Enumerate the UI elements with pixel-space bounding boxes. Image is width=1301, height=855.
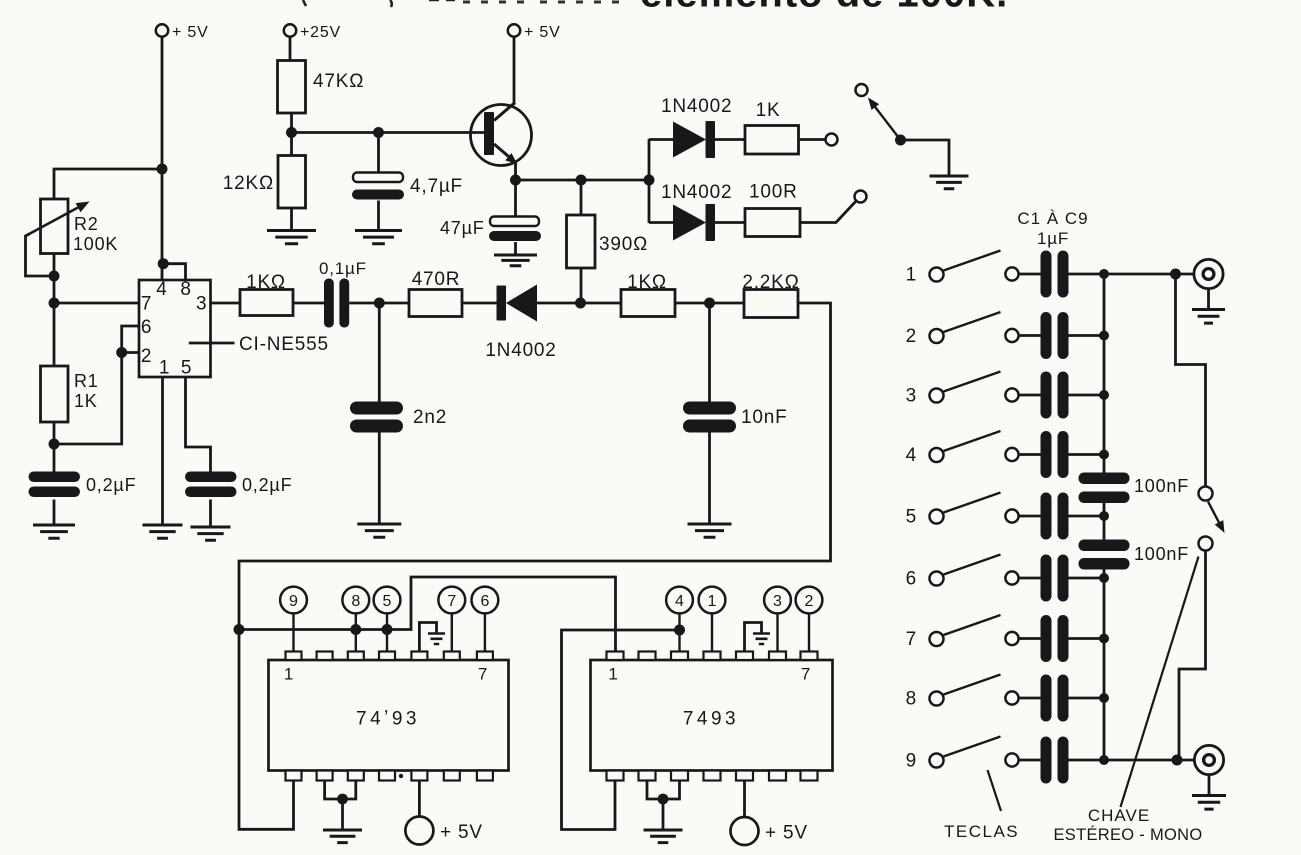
node bus row 6 <box>1099 573 1109 583</box>
capacitor C1 1uF <box>1041 251 1052 298</box>
svg-text:elemento de 100K.: elemento de 100K. <box>640 0 1008 16</box>
svg-text:0,2µF: 0,2µF <box>242 475 292 495</box>
wire pin 5 to capacitor <box>186 377 211 472</box>
power terminal +5V (left) <box>156 24 168 36</box>
wire tecla 7 to capacitor C7 <box>1018 637 1041 640</box>
svg-text:8: 8 <box>180 279 191 300</box>
resistor R1 1K <box>41 366 69 422</box>
svg-text:1N4002: 1N4002 <box>661 96 732 117</box>
svg-text:9: 9 <box>906 751 917 772</box>
svg-text:4: 4 <box>675 593 684 610</box>
wire row1 to output jack 1 <box>1104 273 1194 276</box>
wire to coupling cap <box>293 302 324 305</box>
stereo switch blade with arrow <box>1208 502 1220 524</box>
svg-text:47KΩ: 47KΩ <box>313 71 364 92</box>
node 2n2 junction <box>374 298 385 309</box>
wire row9 to output jack 2 <box>1104 759 1195 762</box>
wire C7 to bus <box>1069 637 1105 640</box>
node base bias junction <box>286 127 297 138</box>
ground under 47uF <box>494 255 537 266</box>
wire to upper diode <box>649 138 673 141</box>
ground under 2n2 <box>357 524 401 537</box>
wire tecla 8 to capacitor C8 <box>1018 697 1041 700</box>
svg-text:+25V: +25V <box>300 24 341 41</box>
svg-text:+ 5V: + 5V <box>440 822 483 843</box>
node label 7 over IC1 <box>438 587 465 614</box>
node bus row 8 <box>1099 693 1109 703</box>
capacitor C3 1uF <box>1041 372 1052 419</box>
wire pin 4 stub <box>161 264 164 280</box>
svg-text:100nF: 100nF <box>1134 544 1189 564</box>
svg-text:0,2µF: 0,2µF <box>86 475 136 495</box>
wire C4 to bus <box>1069 453 1105 456</box>
wire to 1K <box>581 302 622 305</box>
capacitor C4 1uF <box>1041 431 1052 478</box>
wire C6 to bus <box>1069 577 1105 580</box>
ground IC2 bottom <box>644 830 683 843</box>
capacitor 0,1uF <box>324 279 334 328</box>
node bus row 5 <box>1099 511 1109 521</box>
wire C3 to bus <box>1069 394 1105 397</box>
svg-text:7: 7 <box>447 593 456 610</box>
node R2 wiper junction <box>49 271 60 282</box>
terminal after 100R <box>855 191 867 203</box>
svg-text:1: 1 <box>708 593 717 610</box>
node label 9 over IC1 <box>280 587 307 614</box>
wire stereo switch lower to output jack 2 <box>1179 551 1206 761</box>
node emitter junction <box>510 175 521 186</box>
wire 390R to main row <box>580 268 583 303</box>
wire bus mid <box>1103 503 1106 540</box>
output jack J1 <box>1194 259 1223 288</box>
wire node to NE555 pin 7 <box>54 302 139 305</box>
svg-text:C1 À C9: C1 À C9 <box>1017 209 1088 228</box>
node label 3 over IC2 <box>764 587 791 614</box>
ground under 0,2uF left <box>33 525 75 538</box>
node 4,7uF junction <box>373 127 384 138</box>
node IC2 pin3 junction <box>674 625 685 636</box>
node label 2 over IC2 <box>796 587 823 614</box>
ground IC1 bottom <box>323 830 362 843</box>
svg-text:CI-NE555: CI-NE555 <box>239 334 329 355</box>
wire to stereo switch upper contact <box>1176 274 1206 487</box>
wire 10nF to ground <box>708 433 711 525</box>
svg-text:3: 3 <box>773 593 782 610</box>
svg-text:390Ω: 390Ω <box>599 234 648 255</box>
wire +5V rail down to IC1 pins 4/8 <box>161 37 164 263</box>
ground under 10nF <box>688 524 732 537</box>
svg-text:1N4002: 1N4002 <box>661 182 732 203</box>
wire IC2 bottom pins 2-3 join <box>647 781 680 800</box>
svg-text:5: 5 <box>181 358 192 379</box>
wire feedback to IC1 pins <box>239 577 616 652</box>
capacitor C8 1uF <box>1041 675 1052 722</box>
IC2 pin notches top <box>607 652 624 661</box>
ground NE555 pin 1 <box>143 525 183 538</box>
node stereo switch lower junction <box>1172 755 1183 766</box>
wire switch to ground <box>901 140 950 176</box>
power terminal +5V IC2 <box>731 817 759 845</box>
svg-text:4,7µF: 4,7µF <box>410 176 463 197</box>
wire emitter rail <box>516 179 650 182</box>
ground IC2 pin 5 (top) <box>745 623 762 652</box>
power terminal +5V (transistor) <box>508 24 520 36</box>
wire IC2 feedback loop <box>562 630 680 830</box>
resistor 100R <box>745 209 800 237</box>
svg-text:0,1µF: 0,1µF <box>319 259 367 278</box>
svg-text:6: 6 <box>480 593 489 610</box>
wire tecla 4 to capacitor C4 <box>1018 453 1041 456</box>
wire cap to node <box>349 302 409 305</box>
IC U2 74'93 body <box>269 660 509 771</box>
node pin2 wire junction <box>116 347 127 358</box>
capacitor 100nF (bus lower) <box>1079 540 1130 552</box>
svg-text:2,2KΩ: 2,2KΩ <box>742 272 799 293</box>
IC U3 7493 body <box>591 660 833 771</box>
node IC1 ground junction <box>337 794 348 805</box>
wire to 390R <box>580 180 583 215</box>
node 10nF junction <box>704 298 715 309</box>
node switch pivot <box>895 135 906 146</box>
node junction at +5V rail / R2 branch <box>157 164 168 175</box>
node IC1 pin3 junction <box>350 624 361 635</box>
wire +25V to 47K <box>289 37 292 61</box>
svg-text:ESTÉREO - MONO: ESTÉREO - MONO <box>1053 825 1202 844</box>
svg-text:6: 6 <box>141 317 152 338</box>
wire node to NE555 pins 2/6 branch <box>54 353 122 445</box>
wire node 5 to IC1 pin <box>386 614 388 652</box>
node bus row 4 <box>1099 450 1109 460</box>
svg-text:3: 3 <box>196 294 207 315</box>
IC2 pin notches bottom <box>607 771 624 781</box>
node label 8 over IC1 <box>342 587 369 614</box>
svg-text:4: 4 <box>156 279 167 300</box>
wire diode to 1K <box>715 138 745 141</box>
output jack J2 <box>1194 745 1223 774</box>
resistor 390-ohm <box>567 215 596 268</box>
node bus row 1 <box>1099 269 1109 279</box>
svg-text:TECLAS: TECLAS <box>944 822 1019 841</box>
svg-text:7: 7 <box>478 665 488 684</box>
power terminal +5V IC1 <box>405 817 433 845</box>
wire C5 to bus <box>1069 515 1105 518</box>
wire node to 4,7uF <box>377 133 380 174</box>
svg-text:5: 5 <box>383 593 392 610</box>
wire tecla 5 to capacitor C5 <box>1018 515 1041 518</box>
svg-text:4: 4 <box>906 445 917 466</box>
capacitor 0,2uF (pin 5) <box>185 472 237 483</box>
resistor 12K-ohm <box>278 156 306 209</box>
wire node 4 to IC2 pin <box>678 614 680 652</box>
node 390R bottom junction <box>575 298 586 309</box>
ground under 12K <box>267 231 316 244</box>
svg-text:+ 5V: + 5V <box>524 24 561 41</box>
wire C8 to bus <box>1069 697 1105 700</box>
node label 6 over IC1 <box>472 587 499 614</box>
node bus row 3 <box>1099 390 1109 400</box>
svg-text:1KΩ: 1KΩ <box>246 272 286 293</box>
capacitor 47uF electrolytic <box>490 217 539 227</box>
wire jack 1 to ground <box>1207 289 1210 309</box>
wire base node to transistor <box>292 131 487 134</box>
wire to 10nF node <box>675 302 744 305</box>
node stereo switch upper junction <box>1170 269 1181 280</box>
diode 1N4002 (lower, to 100R) <box>673 205 706 241</box>
wire node 6 to IC1 pin <box>484 614 486 652</box>
wire +5V to collector <box>513 37 516 105</box>
wire branch to diodes <box>648 139 651 223</box>
svg-text:2: 2 <box>141 346 152 367</box>
wire NE555 pin 2 <box>122 351 139 354</box>
callout line CI-NE555 <box>189 342 235 345</box>
svg-text:2: 2 <box>805 593 814 610</box>
wire 470R to diode <box>462 302 497 305</box>
svg-text:R1: R1 <box>74 371 99 391</box>
capacitor C6 1uF <box>1041 555 1052 602</box>
svg-text:7: 7 <box>801 665 811 684</box>
wire 1K to terminal <box>799 138 826 141</box>
wire 2n2 to ground <box>378 433 381 525</box>
svg-text:1µF: 1µF <box>1037 229 1069 248</box>
wire node 7 to IC1 pin <box>451 614 453 652</box>
wire 100R to terminal <box>800 202 856 223</box>
node bus row 2 <box>1099 331 1109 341</box>
wire 47K to 12K / base node <box>290 113 293 156</box>
wire node 2 to IC2 pin <box>808 614 810 652</box>
potentiometer R2 100K <box>41 199 69 254</box>
wire cap to ground <box>53 500 56 526</box>
wire emitter to node <box>514 163 517 180</box>
wire to lower diode <box>649 221 673 224</box>
wire 2,2K output to counters <box>239 303 831 829</box>
resistor 470R <box>409 290 462 317</box>
capacitor 2n2 <box>350 402 403 415</box>
wire pin 3 out <box>211 302 241 305</box>
callout line TECLAS <box>988 770 1002 811</box>
capacitor 0,2uF (left) <box>29 472 81 483</box>
wire from +5V rail to R2 top <box>54 169 162 199</box>
node bus row 9 <box>1099 755 1109 765</box>
wire to IC1 ground <box>341 799 344 830</box>
resistor 2,2K-ohm <box>744 290 798 318</box>
svg-text:1KΩ: 1KΩ <box>627 272 667 293</box>
svg-text:8: 8 <box>351 593 360 610</box>
wire mixing bus upper <box>1103 274 1106 473</box>
node 390R top junction <box>576 175 587 186</box>
wire IC2 pin 5 bottom to +5V <box>743 781 746 818</box>
svg-text:5: 5 <box>906 507 917 528</box>
svg-text:470R: 470R <box>412 269 461 290</box>
wire node to 2n2 <box>378 303 381 402</box>
svg-text:CHAVE: CHAVE <box>1088 806 1150 825</box>
ground jack 2 <box>1192 796 1226 810</box>
svg-text:1: 1 <box>159 358 170 379</box>
wire to IC2 ground <box>662 799 665 830</box>
wire mixing bus lower <box>1103 570 1106 761</box>
node bus row 7 <box>1099 634 1109 644</box>
node diode branch junction <box>644 175 655 186</box>
op-amp timer U1 CI-NE555 box <box>139 280 211 377</box>
wire tecla 3 to capacitor C3 <box>1018 394 1041 397</box>
svg-text:7493: 7493 <box>683 709 739 730</box>
wire C2 to bus <box>1069 334 1105 337</box>
resistor 1K (output) <box>745 126 799 155</box>
svg-text:2: 2 <box>906 326 917 347</box>
node label 4 over IC2 <box>666 587 693 614</box>
wire R1 bottom to capacitor <box>53 422 56 472</box>
svg-text:+ 5V: + 5V <box>765 823 808 844</box>
wire jack 2 to ground <box>1208 775 1211 795</box>
capacitor C7 1uF <box>1041 615 1052 662</box>
node IC2 ground junction <box>658 794 669 805</box>
transistor Q1 <box>471 105 532 166</box>
svg-text:7: 7 <box>141 294 152 315</box>
capacitor C5 1uF <box>1041 493 1052 540</box>
capacitor 100nF (bus upper) <box>1079 473 1130 485</box>
ground under 0,2uF pin5 <box>191 527 231 540</box>
svg-text:+ 5V: + 5V <box>172 24 209 41</box>
svg-text:1: 1 <box>608 665 618 684</box>
wire node 1 to IC2 pin <box>711 614 713 652</box>
wire IC1 bottom pins 2-3 join <box>325 781 356 800</box>
svg-text:12KΩ: 12KΩ <box>223 173 274 194</box>
svg-text:2n2: 2n2 <box>413 407 447 428</box>
IC1 pin notches bottom <box>286 771 302 781</box>
wire diode to 100R <box>715 221 745 224</box>
svg-text:10nF: 10nF <box>741 407 788 428</box>
svg-text:1: 1 <box>284 665 294 684</box>
switch terminal (top) <box>856 84 868 96</box>
node pins 4/8 supply junction <box>158 258 169 269</box>
resistor 1K-ohm (second) <box>621 290 675 317</box>
svg-text:100nF: 100nF <box>1134 476 1189 496</box>
power terminal +25V <box>284 24 296 36</box>
wire 47uF to ground <box>514 242 517 255</box>
IC1 pin notches top <box>286 652 302 661</box>
ground at mute switch <box>930 176 969 189</box>
switch blade with arrow <box>874 106 901 141</box>
node IC1 pin4 junction <box>382 624 393 635</box>
wire R2 bottom to R1 top <box>53 254 56 367</box>
wire tecla 9 to capacitor C9 <box>1018 759 1041 762</box>
wire node to 10nF <box>708 303 711 402</box>
wire pin 8 loop <box>163 264 185 280</box>
wire 4,7uF to ground <box>377 201 380 231</box>
svg-text:7: 7 <box>906 629 917 650</box>
ground under 4,7uF <box>355 231 402 244</box>
terminal after 1K <box>826 134 838 146</box>
wire R2 wiper to bottom node <box>26 234 49 277</box>
svg-text:47µF: 47µF <box>440 218 485 238</box>
wire tecla 1 to capacitor C1 <box>1018 273 1041 276</box>
svg-text:1: 1 <box>906 265 917 286</box>
svg-text:100K: 100K <box>73 234 118 254</box>
wire cap pin5 to ground <box>209 500 212 528</box>
capacitor C9 1uF <box>1041 737 1052 784</box>
wire pin 1 to ground <box>161 377 164 525</box>
node label 1 over IC2 <box>699 587 726 614</box>
svg-text:1N4002: 1N4002 <box>485 340 556 361</box>
svg-text:9: 9 <box>289 593 298 610</box>
wire tecla 6 to capacitor C6 <box>1018 577 1041 580</box>
node feedback junction IC1 <box>234 624 245 635</box>
wire IC1 pin 5 bottom to +5V <box>418 781 421 817</box>
wire C1 to bus <box>1069 273 1105 276</box>
callout line CHAVE <box>1121 557 1199 808</box>
svg-text:3: 3 <box>906 386 917 407</box>
svg-text:6: 6 <box>906 569 917 590</box>
wire node 3 to IC2 pin <box>776 614 778 652</box>
svg-text:R2: R2 <box>74 214 99 234</box>
capacitor 10nF <box>683 402 736 415</box>
resistor 47K-ohm <box>278 61 306 114</box>
wire NE555 pin 6 <box>122 326 139 353</box>
wire node to 47uF <box>514 180 517 217</box>
diode 1N4002 (upper, to 1K) <box>673 122 706 158</box>
print artifact dot <box>399 774 403 778</box>
svg-text:1K: 1K <box>74 391 98 411</box>
capacitor C2 1uF <box>1041 312 1052 359</box>
diode 1N4002 (series, pointing left) <box>497 286 507 321</box>
wire C9 to bus <box>1069 759 1105 762</box>
wire node 9 to IC1 pin <box>292 614 294 652</box>
svg-text:1K: 1K <box>756 100 781 121</box>
svg-text:100R: 100R <box>749 182 798 203</box>
node label 5 over IC1 <box>374 587 401 614</box>
node R1 bottom junction <box>49 439 60 450</box>
wire tecla 2 to capacitor C2 <box>1018 334 1041 337</box>
ground jack 1 <box>1192 310 1225 324</box>
stereo switch lower contact <box>1199 537 1213 551</box>
node pin7 junction <box>49 298 60 309</box>
stereo switch upper contact <box>1199 487 1213 501</box>
wire node 8 to IC1 pin <box>355 614 357 652</box>
svg-text:8: 8 <box>906 689 917 710</box>
wire 12K to ground <box>290 208 293 231</box>
ground IC1 pin 5 (top) <box>419 623 436 652</box>
resistor 1K-ohm (555 output) <box>240 290 293 316</box>
capacitor 4,7uF electrolytic <box>353 173 403 183</box>
svg-text:74ʼ93: 74ʼ93 <box>356 709 420 730</box>
